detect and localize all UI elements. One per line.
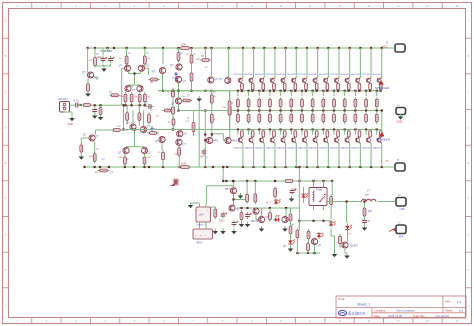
svg-text:1/1: 1/1 xyxy=(459,309,463,313)
wire lower rail2 y186 xyxy=(207,185,234,187)
resistor R46 emitter xyxy=(290,97,293,109)
svg-text:Q?: Q? xyxy=(147,125,151,128)
svg-text:8: 8 xyxy=(222,6,224,8)
wire q212 emitter xyxy=(355,90,360,96)
svg-text:Q?: Q? xyxy=(183,143,187,146)
wire output column 1 top xyxy=(242,48,244,78)
wire col205 xyxy=(204,48,206,60)
wire row2 xyxy=(127,105,139,125)
svg-text:10: 10 xyxy=(280,6,283,8)
transistor Q36 2SA1943 xyxy=(287,130,297,150)
junction dots lrail xyxy=(225,180,333,182)
svg-text:10R: 10R xyxy=(368,211,373,213)
junction dots spk xyxy=(346,200,348,202)
transistor Q213 2SC5200 xyxy=(362,74,372,83)
ground vas arrow xyxy=(187,95,202,102)
resistor R55 emitter xyxy=(279,112,282,124)
svg-text:11: 11 xyxy=(309,6,312,8)
svg-text:16: 16 xyxy=(456,321,459,323)
wire vas bus y90.8 xyxy=(158,90,229,92)
wire q211 emitter xyxy=(345,90,350,96)
wire col191b xyxy=(191,65,193,91)
svg-text:2SA1943: 2SA1943 xyxy=(308,146,317,149)
transistor Q39 2SA1943 xyxy=(319,130,329,150)
svg-text:G: G xyxy=(468,234,470,236)
svg-text:R?: R? xyxy=(96,149,100,151)
svg-text:1K: 1K xyxy=(186,121,189,123)
resistor R411 emitter xyxy=(343,97,346,109)
wire y208 bus xyxy=(237,207,299,209)
resistor R41 emitter xyxy=(237,97,240,109)
wire q6 down xyxy=(162,74,164,91)
svg-text:Q?: Q? xyxy=(119,65,123,68)
transistor Q25 xyxy=(311,238,321,247)
wire ic-bridge xyxy=(200,226,207,229)
wire x199 drop xyxy=(198,101,200,167)
svg-text:14: 14 xyxy=(397,6,400,8)
wire q26 xyxy=(345,230,348,254)
inductor L1 xyxy=(359,190,376,202)
resistor R27 (in V+ rail) xyxy=(179,47,192,50)
wire q22 emitter xyxy=(249,90,254,96)
wire lower bot rail xyxy=(297,252,321,254)
wire lower rail y181 xyxy=(222,180,332,182)
svg-text:1u: 1u xyxy=(368,221,371,223)
wire q39 down xyxy=(327,143,329,167)
svg-text:Date:: Date: xyxy=(374,314,380,318)
wire caps bottom xyxy=(95,64,111,67)
svg-text:2SA1943: 2SA1943 xyxy=(362,146,371,149)
transistor Q13 xyxy=(155,136,165,143)
transistor Q12 drv xyxy=(140,125,150,133)
svg-text:2SC5200: 2SC5200 xyxy=(276,74,286,76)
svg-text:13: 13 xyxy=(368,6,371,8)
transistor Q31 2SA1943 xyxy=(233,130,243,150)
svg-text:Your Company: Your Company xyxy=(396,309,415,313)
wire relay drop xyxy=(298,181,300,228)
resistor R33 bias string xyxy=(228,99,231,117)
svg-text:R?: R? xyxy=(158,152,162,154)
wire q24 emitter xyxy=(270,90,275,96)
svg-text:1K: 1K xyxy=(148,58,151,60)
svg-text:Q?: Q? xyxy=(82,71,86,74)
svg-text:2SC5200: 2SC5200 xyxy=(297,74,307,76)
resistor R41 row2 xyxy=(126,111,129,123)
ground lower left xyxy=(188,203,200,209)
logo mark xyxy=(170,179,180,187)
wire R5 top xyxy=(126,48,128,55)
svg-text:Q?: Q? xyxy=(148,152,152,155)
resistor R3 xyxy=(94,55,97,67)
transistor Q33 2SA1943 xyxy=(255,130,265,150)
svg-text:7: 7 xyxy=(192,6,194,8)
svg-text:3: 3 xyxy=(75,6,77,8)
capacitor C23 el xyxy=(290,188,298,195)
capacitor C2 input filter xyxy=(92,107,97,114)
wire d8 xyxy=(303,187,305,203)
wire q314 down xyxy=(381,143,383,167)
wire output column 4 top xyxy=(274,48,276,78)
wire q213 emitter xyxy=(366,90,371,96)
svg-text:2SC5200: 2SC5200 xyxy=(319,74,329,76)
wire mirror2 bases xyxy=(126,130,145,147)
resistor R15 xyxy=(190,71,193,83)
resistor R94 base2 xyxy=(273,131,276,137)
wire output column 14 top xyxy=(381,48,383,78)
svg-text:Q?: Q? xyxy=(152,70,156,73)
svg-text:1.0: 1.0 xyxy=(457,300,462,304)
svg-text:Relay: Relay xyxy=(316,189,323,192)
resistor R5 load xyxy=(125,54,128,66)
value 10R xyxy=(181,43,186,47)
transistor Q27 2SC5200 xyxy=(297,74,307,83)
svg-text:J?: J? xyxy=(398,194,401,197)
svg-text:47: 47 xyxy=(214,119,217,121)
wire q14 xyxy=(178,130,181,168)
transistor Q27 vbe xyxy=(171,98,182,106)
resistor R14 xyxy=(190,53,193,65)
resistor R47 emitter xyxy=(301,97,304,109)
svg-text:Q?: Q? xyxy=(318,245,322,247)
resistor R86 base xyxy=(294,83,297,89)
junction dots zobel xyxy=(363,200,365,202)
svg-text:10: 10 xyxy=(125,130,128,132)
junction dots diff em xyxy=(133,72,135,74)
wire zobel xyxy=(364,202,366,208)
resistor R514 emitter xyxy=(375,112,378,124)
wire q20 xyxy=(232,180,247,205)
resistor R66 xyxy=(289,224,292,235)
resistor R58 emitter xyxy=(311,112,314,124)
svg-text:Q?: Q? xyxy=(219,78,223,81)
resistor R91 base2 xyxy=(241,131,244,137)
resistor R10 xyxy=(143,92,146,104)
wire q312 down xyxy=(359,143,361,167)
wire q35 down xyxy=(285,143,287,167)
wire output column 3 top xyxy=(263,48,265,78)
wire r24 xyxy=(162,160,164,167)
svg-text:10: 10 xyxy=(280,321,283,323)
svg-text:10R: 10R xyxy=(181,162,186,166)
ground c22 xyxy=(245,222,251,228)
svg-text:1K: 1K xyxy=(119,58,122,60)
svg-text:1: 1 xyxy=(17,321,19,323)
connector J2 VEE xyxy=(386,158,406,171)
resistor R910 base2 xyxy=(337,131,340,137)
resistor R13 xyxy=(177,50,180,62)
svg-text:2SA1943: 2SA1943 xyxy=(330,146,339,149)
svg-text:2SA1943: 2SA1943 xyxy=(255,146,264,149)
transistor Q34 2SA1943 xyxy=(265,130,275,150)
wire q28 emitter xyxy=(313,90,318,96)
transistor Q211 2SC5200 xyxy=(340,74,350,83)
svg-text:R?: R? xyxy=(201,55,205,58)
resistor R96 base2 xyxy=(294,131,297,137)
ground R40 xyxy=(79,154,85,160)
connector J1 VCC xyxy=(382,40,405,52)
svg-text:F: F xyxy=(5,199,7,201)
svg-text:12: 12 xyxy=(338,6,341,8)
wire col163 xyxy=(162,48,164,64)
wire q26 emitter xyxy=(291,90,296,96)
resistor R89 base xyxy=(326,83,329,89)
svg-text:~: ~ xyxy=(205,234,207,238)
svg-text:D: D xyxy=(5,127,7,129)
component value labels xyxy=(89,53,236,161)
wire C3 top xyxy=(103,48,111,56)
transistor Q7 vas xyxy=(170,64,182,70)
svg-text:2SA1943: 2SA1943 xyxy=(276,146,285,149)
svg-text:J?: J? xyxy=(398,221,401,224)
diode D6 xyxy=(345,224,352,231)
resistor R20 xyxy=(192,120,195,133)
svg-text:LM7812: LM7812 xyxy=(197,225,206,227)
resistor R52 emitter xyxy=(247,112,250,124)
wire output column 7 top xyxy=(306,48,308,78)
resistor R82 base xyxy=(251,83,254,89)
transistor Q2 diff xyxy=(119,65,131,72)
resistor R11 fb xyxy=(109,92,121,97)
svg-text:2SC5200: 2SC5200 xyxy=(308,74,318,76)
resistor R44 emitter xyxy=(269,97,272,109)
resistor R66b xyxy=(289,212,292,223)
capacitor C21 xyxy=(232,220,239,227)
resistor R51 emitter xyxy=(237,112,240,124)
wire r19 xyxy=(229,91,231,138)
diode D2 LED xyxy=(273,215,280,222)
svg-text:9: 9 xyxy=(251,321,253,323)
wire r20 xyxy=(193,111,195,137)
ground input connector xyxy=(65,112,75,126)
transistor Q24 2SC5200 xyxy=(265,74,275,83)
resistor R28 (in V- rail) xyxy=(179,166,192,169)
resistor R60 xyxy=(214,207,217,219)
svg-text:R?: R? xyxy=(95,172,99,175)
bridge rectifier D1 xyxy=(193,229,213,245)
resistor R64 h (lower rail) xyxy=(283,180,295,183)
resistor R71 xyxy=(339,234,342,246)
transistor Q18 mirror2 xyxy=(118,147,129,154)
ground c23 xyxy=(289,196,295,202)
svg-text:R?: R? xyxy=(193,54,197,56)
transistor Q25 2SC5200 xyxy=(276,74,286,83)
svg-text:100: 100 xyxy=(147,97,151,99)
svg-text:H: H xyxy=(468,270,470,272)
svg-text:ryan abubo: ryan abubo xyxy=(435,314,449,318)
wire q17 base xyxy=(81,138,89,144)
resistor R62 xyxy=(254,192,257,204)
wire q36 down xyxy=(295,143,297,167)
wire q34 down xyxy=(274,143,276,167)
transistor Q1 input xyxy=(82,71,100,80)
svg-text:R?: R? xyxy=(205,67,209,69)
svg-text:15: 15 xyxy=(426,6,429,8)
svg-text:R?: R? xyxy=(150,110,154,112)
connector P4 spk- xyxy=(396,221,406,238)
resistor R68 xyxy=(307,229,310,241)
net flag SPEAKER right xyxy=(376,132,391,142)
svg-text:2SC5200: 2SC5200 xyxy=(255,74,265,76)
resistor R35 spreader xyxy=(172,105,175,116)
resistor R513 emitter xyxy=(365,112,368,124)
wire lower drop x223 xyxy=(222,166,224,182)
svg-text:Q?: Q? xyxy=(184,133,188,136)
svg-text:10R: 10R xyxy=(181,43,186,47)
svg-text:R?: R? xyxy=(127,159,131,161)
svg-text:56K: 56K xyxy=(196,59,200,61)
resistor R57 emitter xyxy=(301,112,304,124)
junction dots mirror bot xyxy=(124,104,145,106)
resistor R913 base2 xyxy=(369,131,372,137)
transistor Q9 xyxy=(208,77,219,83)
resistor R9 xyxy=(138,92,141,104)
svg-text:A: A xyxy=(468,19,470,22)
junction dots bottom rail xyxy=(83,166,228,168)
wire q23 emitter xyxy=(259,90,264,96)
resistor R37 h xyxy=(181,97,192,102)
ground R2 xyxy=(98,115,104,121)
svg-text:Sheet:: Sheet: xyxy=(446,309,454,313)
svg-text:J?: J? xyxy=(386,40,389,44)
svg-text:100: 100 xyxy=(118,157,122,159)
resistor R38 h small xyxy=(162,109,172,112)
wire fb node xyxy=(96,130,113,135)
ground C2 xyxy=(92,113,98,119)
wire col211 xyxy=(210,48,212,76)
svg-text:GND: GND xyxy=(397,120,403,124)
net flag SPEAKER top xyxy=(375,80,390,90)
junction dots y220 bus xyxy=(298,220,324,222)
svg-text:5: 5 xyxy=(134,321,136,323)
svg-text:G: G xyxy=(5,234,7,236)
svg-text:1: 1 xyxy=(17,6,19,8)
svg-text:Q?: Q? xyxy=(171,103,175,106)
wire output column 12 top xyxy=(359,48,361,78)
svg-text:R?: R? xyxy=(180,53,184,55)
svg-text:13: 13 xyxy=(368,321,371,323)
svg-text:嘉立创EDA: 嘉立创EDA xyxy=(348,311,366,316)
ground q23 xyxy=(259,226,288,232)
svg-text:TITLE:: TITLE: xyxy=(338,298,346,301)
wire speaker line xyxy=(327,201,359,203)
svg-text:Q?: Q? xyxy=(132,89,136,92)
capacitor C24 zobel xyxy=(362,218,371,225)
resistor R61 xyxy=(246,192,249,204)
wire q37 down xyxy=(306,143,308,167)
svg-text:100u: 100u xyxy=(97,56,103,59)
svg-text:4403: 4403 xyxy=(232,140,238,143)
transistor Q17 fb xyxy=(83,134,99,142)
resistor R73 xyxy=(240,210,243,221)
transistor Q3 diff xyxy=(138,65,150,72)
resistor R914 base2 xyxy=(379,131,382,137)
capacitor C4 100u xyxy=(108,56,115,63)
wire q8 down xyxy=(178,83,180,91)
transistor Q14 xyxy=(176,139,187,146)
resistor R68b xyxy=(307,241,310,252)
transistor Q210 2SC5200 xyxy=(330,74,340,83)
ground J4 xyxy=(398,114,404,120)
wire x206 drop xyxy=(204,109,206,167)
resistor R18 xyxy=(210,112,213,124)
svg-text:6: 6 xyxy=(163,6,165,8)
wire r66 xyxy=(290,208,292,239)
wire m2 em xyxy=(125,154,145,158)
svg-text:Q?: Q? xyxy=(146,65,150,68)
svg-text:R?: R? xyxy=(168,122,172,124)
resistor R65 xyxy=(269,210,272,221)
svg-text:GND: GND xyxy=(68,123,74,126)
wire output column 2 top xyxy=(253,48,255,78)
svg-text:C: C xyxy=(468,92,470,94)
junction dots input node xyxy=(94,104,102,106)
svg-text:2SA1943: 2SA1943 xyxy=(351,146,360,149)
resistor R810 base xyxy=(337,83,340,89)
resistor R69 xyxy=(330,194,333,206)
svg-text:B: B xyxy=(5,56,7,58)
wire q17 em xyxy=(94,142,96,154)
capacitor C3 100u xyxy=(97,56,108,63)
resistor R59 emitter xyxy=(322,112,325,124)
resistor R22 v xyxy=(148,112,151,124)
resistor R83 base xyxy=(262,83,265,89)
transistor Q19 mirror2 xyxy=(141,147,151,154)
resistor R811 base xyxy=(347,83,350,89)
wire output column 10 top xyxy=(338,48,340,78)
junction dots q27 xyxy=(177,90,179,112)
resistor R24 xyxy=(162,150,165,162)
wire output column 5 top xyxy=(285,48,287,78)
diode D4 xyxy=(283,239,295,249)
diode D3 ACT xyxy=(266,199,280,206)
svg-text:R?: R? xyxy=(102,159,106,161)
wire input node dot xyxy=(79,104,85,106)
transistor Q5 mirror xyxy=(132,85,143,92)
wire cap to R1 xyxy=(81,104,85,106)
wire Q1 collector xyxy=(94,77,98,81)
resistor R85 base xyxy=(283,83,286,89)
resistor R26 fb emitter xyxy=(93,152,96,164)
transistor Q35 2SA1943 xyxy=(276,130,286,150)
svg-text:3: 3 xyxy=(75,321,77,323)
svg-text:14: 14 xyxy=(397,321,400,323)
svg-text:VCC: VCC xyxy=(382,44,388,48)
wire V+ top rail xyxy=(88,47,394,49)
wire q33 down xyxy=(263,143,265,167)
resistor R67 xyxy=(296,228,299,240)
svg-text:R?: R? xyxy=(349,234,353,236)
wire diff base L xyxy=(122,68,125,105)
svg-text:2SC5200: 2SC5200 xyxy=(330,74,340,76)
transistor Q10 xyxy=(219,77,231,83)
resistor R410 emitter xyxy=(333,97,336,109)
capacitor C20 220u xyxy=(219,212,227,223)
svg-text:D: D xyxy=(468,127,470,129)
resistor R911 base2 xyxy=(347,131,350,137)
transistor Q29 2SC5200 xyxy=(319,74,329,83)
ground q26 xyxy=(344,253,350,259)
wire R6 top xyxy=(144,48,146,55)
resistor R812 base xyxy=(358,83,361,89)
wire col331 xyxy=(331,181,341,252)
wire col178 xyxy=(178,48,180,50)
transistor Q32 2SA1943 xyxy=(244,130,254,150)
transistor Q15 drv2 xyxy=(206,137,219,143)
resistor R31 xyxy=(124,155,127,166)
wire r6162 xyxy=(247,181,255,194)
resistor R63 xyxy=(274,186,277,198)
svg-text:Q?: Q? xyxy=(170,64,174,67)
